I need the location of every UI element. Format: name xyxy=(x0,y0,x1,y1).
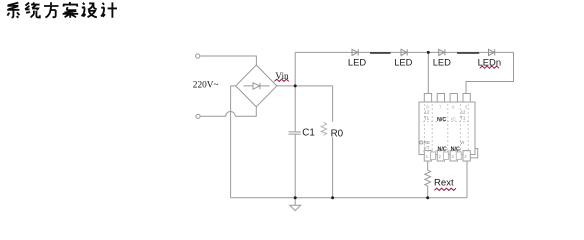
svg-text:RE: RE xyxy=(424,140,430,145)
svg-text:LED: LED xyxy=(348,56,366,67)
svg-text:C1: C1 xyxy=(302,128,315,139)
svg-text:N/C: N/C xyxy=(451,146,460,152)
svg-text:R0: R0 xyxy=(331,128,344,139)
svg-text:IC: IC xyxy=(451,116,455,121)
svg-text:12: 12 xyxy=(425,110,430,115)
svg-text:LEDn: LEDn xyxy=(478,56,501,67)
svg-text:Vin: Vin xyxy=(275,72,289,82)
svg-text:LED: LED xyxy=(394,56,412,67)
svg-text:12: 12 xyxy=(461,110,466,115)
svg-text:Rext: Rext xyxy=(434,178,454,189)
svg-text:N/C: N/C xyxy=(438,146,447,152)
svg-text:VT: VT xyxy=(424,145,430,150)
svg-text:220V~: 220V~ xyxy=(193,81,219,91)
svg-text:N/C: N/C xyxy=(437,117,446,123)
svg-text:T1: T1 xyxy=(424,116,430,121)
svg-text:T1: T1 xyxy=(460,116,466,121)
svg-text:VI: VI xyxy=(460,140,464,145)
svg-text:LED: LED xyxy=(433,56,451,67)
